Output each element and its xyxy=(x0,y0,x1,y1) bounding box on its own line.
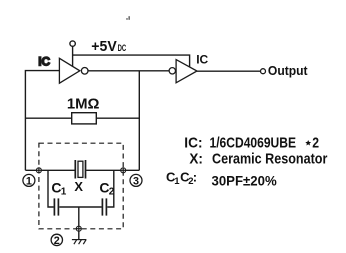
wire resistor feedback branch xyxy=(25,117,139,119)
svg-text::: : xyxy=(193,170,197,185)
node label 3 circled xyxy=(130,174,142,187)
+5VDC supply terminal xyxy=(70,41,75,46)
star symbol xyxy=(305,140,311,145)
U2 input bubble xyxy=(169,68,175,74)
wire bottom between C1 and C2 xyxy=(59,206,101,208)
scan artifact speck xyxy=(126,16,130,20)
svg-text:IC: IC xyxy=(196,53,208,67)
label C1 xyxy=(51,180,66,198)
ceramic resonator X crystal body xyxy=(78,161,83,177)
op-amp U1 inverter triangle xyxy=(59,58,79,83)
wire main lower rail right segment (resonator to node 3) xyxy=(86,169,139,171)
ground xyxy=(72,240,87,245)
legend line 1: IC value xyxy=(184,135,319,152)
wire right vertical (U1 output down to node 3) xyxy=(138,71,140,171)
node terminal 1 xyxy=(36,168,41,173)
legend line 2: X ceramic resonator xyxy=(189,150,327,167)
legend line 3: C1 C2 value xyxy=(166,170,277,189)
svg-text:Output: Output xyxy=(268,64,308,78)
svg-text:2: 2 xyxy=(54,235,60,247)
wire main lower rail left segment (node 1 to resonator) xyxy=(25,169,74,171)
svg-text:X: X xyxy=(74,179,83,194)
capacitor C2 plates xyxy=(102,198,106,215)
wire +5V rail xyxy=(73,55,190,67)
svg-text:1/6CD4069UBE: 1/6CD4069UBE xyxy=(210,135,297,152)
svg-text:3: 3 xyxy=(133,175,139,187)
svg-text:IC: IC xyxy=(38,55,50,69)
wire input left vertical (node 1 to inverter input) xyxy=(25,71,59,171)
node terminal 2 xyxy=(76,226,81,231)
svg-text:1: 1 xyxy=(26,175,32,187)
U1 output bubble xyxy=(81,68,88,75)
node label 1 circled xyxy=(23,174,35,187)
label C2 xyxy=(99,180,114,198)
wire U2 output xyxy=(197,70,260,72)
ground stem xyxy=(78,231,80,239)
wire center drop to node 2 xyxy=(78,207,80,226)
svg-text:30PF±20%: 30PF±20% xyxy=(212,172,278,188)
svg-text:Ceramic Resonator: Ceramic Resonator xyxy=(212,150,328,167)
output terminal xyxy=(261,69,266,74)
svg-text:1MΩ: 1MΩ xyxy=(67,96,100,112)
svg-text:1: 1 xyxy=(61,187,67,198)
svg-text:2: 2 xyxy=(312,135,319,152)
ceramic resonator X right plate xyxy=(85,160,87,179)
wire supply drop to U1 power xyxy=(72,46,74,66)
label +5VDC xyxy=(91,38,126,55)
svg-text:IC:: IC: xyxy=(184,135,202,152)
svg-text:DC: DC xyxy=(118,43,127,53)
capacitor C1 plates xyxy=(54,198,58,215)
label 1M ohm xyxy=(67,96,100,112)
wire capacitor loop left riser xyxy=(48,170,54,207)
ceramic resonator X left plate xyxy=(74,160,76,179)
node terminal 3 xyxy=(121,168,126,173)
svg-text:+5V: +5V xyxy=(91,38,116,55)
resistor R1 1M ohm body xyxy=(72,113,97,124)
wire U1 output to U2 input xyxy=(88,70,169,72)
svg-text:2: 2 xyxy=(109,187,115,198)
wire capacitor loop right riser xyxy=(107,170,114,207)
node label 2 circled xyxy=(51,234,62,247)
svg-text:X:: X: xyxy=(189,150,203,167)
op-amp U2 inverter triangle xyxy=(176,60,197,83)
resonator module dashed outline xyxy=(39,143,123,229)
